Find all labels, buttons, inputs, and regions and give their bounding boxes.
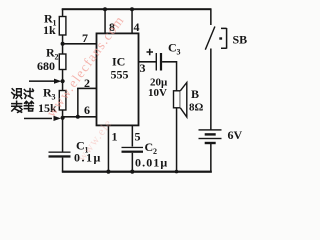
label IC 555 (111, 55, 129, 82)
label C2 (135, 140, 168, 170)
watermark www.elecfans.com (main diagonal) (43, 12, 127, 119)
svg-text:1k: 1k (43, 23, 56, 37)
svg-text:555: 555 (111, 68, 129, 82)
wire: pin 5 stub (132, 126, 134, 147)
svg-text:C: C (168, 41, 177, 55)
svg-text:B: B (191, 87, 199, 101)
label R2 (37, 46, 59, 74)
wire: battery to ground rail (210, 144, 212, 173)
label R1 (43, 12, 57, 38)
wire: speaker branch down (176, 61, 178, 92)
wire: pin 1 stub to ground (108, 126, 110, 172)
resistor R2 (59, 54, 66, 70)
wire: pin 4 stub (131, 9, 133, 34)
node: pin8 on rail (103, 7, 107, 11)
wire: +V rail corner to SB (210, 9, 212, 25)
label C3 (168, 41, 181, 57)
node: pin4 on rail (130, 7, 134, 11)
IC U1 555 box (97, 33, 139, 125)
switch SB button bracket (219, 28, 226, 49)
wire: R1 to pin7 node (62, 35, 64, 45)
node B (probe bottom / pins 2,6) (61, 116, 65, 120)
wire: C1 to ground rail (62, 158, 64, 172)
wire: pin 6 from node B to IC (63, 116, 98, 118)
svg-text:6: 6 (84, 103, 90, 117)
svg-text:SB: SB (233, 33, 248, 47)
node: speaker on ground rail (175, 170, 179, 174)
test probe arrow (bottom) (24, 116, 61, 121)
svg-text:680: 680 (37, 59, 55, 73)
resistor R1 (59, 17, 66, 36)
wire: pin 2 to IC (77, 88, 98, 90)
wire: pin 3 output (139, 61, 157, 63)
wire: C3 to speaker branch (162, 61, 177, 63)
capacitor C1 (49, 152, 71, 158)
label 测试 (test) (12, 89, 34, 99)
wire: top +V rail (62, 8, 212, 10)
battery GB 6V (199, 129, 222, 144)
wire: node to R2 (62, 45, 64, 54)
svg-text:5: 5 (135, 130, 141, 144)
wire: pin 8 stub (104, 9, 106, 34)
node: pin7 junction (61, 42, 65, 46)
svg-text:4: 4 (134, 20, 140, 34)
svg-text:6V: 6V (228, 128, 243, 142)
wire: R3 to node B (62, 110, 64, 119)
wire: speaker to ground (176, 108, 178, 172)
label + of C3 (147, 49, 154, 56)
watermark www.ele (faint lower fragment) (74, 116, 115, 164)
wire: C2 to ground (132, 153, 134, 172)
resistor R3 (59, 91, 66, 111)
switch SB blade (205, 27, 215, 50)
svg-text:IC: IC (112, 55, 125, 69)
node: link junction on pin6 wire (76, 115, 80, 119)
wire: bottom ground rail (62, 171, 212, 173)
svg-text:3: 3 (177, 48, 181, 57)
wire: pin 2 link vertical (77, 88, 79, 117)
svg-text:1: 1 (112, 130, 118, 144)
wire: chain top corner to R1 (62, 9, 64, 17)
label R3 (38, 86, 57, 116)
wire: pin 7 to IC (63, 43, 98, 45)
label C3 value 20u 10V (148, 77, 168, 100)
node: C2 on ground rail (130, 170, 134, 174)
svg-text:10V: 10V (148, 87, 167, 99)
capacitor C3 (electrolytic, + left) (156, 53, 162, 71)
node: pin1 on ground rail (106, 170, 110, 174)
svg-text:0.01μ: 0.01μ (135, 156, 168, 170)
wire: node B to C1 (62, 118, 64, 152)
svg-text:8Ω: 8Ω (189, 102, 204, 114)
svg-text:3: 3 (140, 61, 146, 75)
label C1 (74, 139, 102, 165)
test probe arrow (top) (29, 79, 62, 84)
wire: R2 to probe node A (62, 70, 64, 91)
svg-text:2: 2 (55, 53, 59, 62)
node A (probe top) (61, 79, 65, 83)
svg-text:C: C (145, 140, 154, 154)
label 表笔 (probe) (12, 101, 34, 112)
capacitor C2 (122, 147, 144, 153)
speaker B (174, 83, 187, 118)
svg-text:7: 7 (82, 31, 88, 45)
wire: SB to battery (210, 49, 212, 130)
